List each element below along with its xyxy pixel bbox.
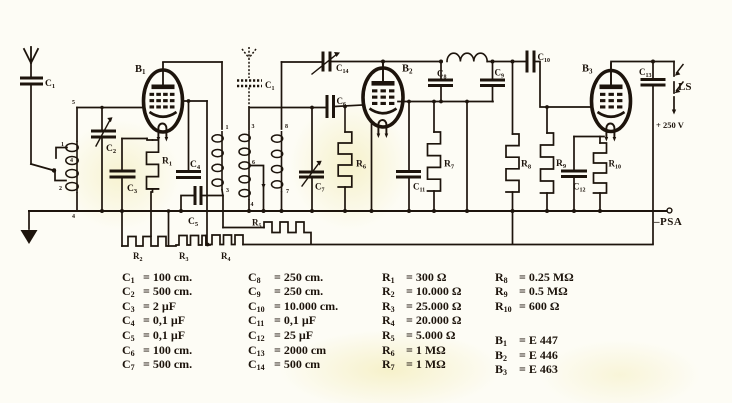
svg-text:3: 3 <box>252 124 255 130</box>
switch arm (wave range selector) <box>31 164 54 171</box>
wire grid line of B2: coil B top to C6 <box>249 108 326 131</box>
wire to C10 <box>487 61 526 63</box>
wire C14 left lead <box>282 61 322 63</box>
variable capacitor C2 (tuning) <box>91 131 116 137</box>
svg-text:R7: R7 <box>444 160 455 171</box>
svg-text:C2: C2 <box>106 144 116 155</box>
parts list: C6 value <box>122 343 192 358</box>
arrow of C7 <box>302 163 319 186</box>
wire band filter centre tap to rail <box>466 102 468 212</box>
wire coil B bottom to rail <box>248 200 250 211</box>
wire B2 output node (y101.5) <box>398 101 493 103</box>
dotted capacitor C1 (alt antenna) <box>237 81 262 87</box>
wire coil A bottom down to R5 <box>222 190 223 228</box>
parts list: C4 value <box>122 313 185 328</box>
bias chain R2 R3 R4 baseline <box>122 237 176 247</box>
resistor R5 <box>264 222 311 244</box>
svg-text:B3: B3 <box>582 64 593 76</box>
wire C12 to rail <box>573 178 575 211</box>
wire stem of C2 <box>101 108 103 130</box>
svg-text:R8: R8 <box>521 160 532 171</box>
resistor R1 <box>147 140 159 189</box>
resistor R4 <box>210 235 243 245</box>
capacitor C6 (grid coupling) <box>327 95 334 118</box>
svg-text:C7: C7 <box>315 182 325 194</box>
wire C14 to B2 anode junction and band filter <box>332 61 442 63</box>
parts list: R8 value <box>495 270 574 285</box>
svg-text:R10: R10 <box>609 159 622 171</box>
+250V supply terminal <box>673 97 675 110</box>
stem of C7 <box>311 108 313 171</box>
wire node down to R3/R4 junction <box>206 101 208 244</box>
ground symbol <box>28 211 30 229</box>
capacitor C1 (antenna coupling) <box>20 78 43 84</box>
wire R5 lead <box>223 227 264 229</box>
wire C5 left lead to rail <box>181 196 195 212</box>
svg-text:8: 8 <box>285 124 288 130</box>
-PSA terminal <box>667 208 672 213</box>
capacitor C3 <box>121 139 123 170</box>
wire C14 branch down to coil C <box>281 62 283 129</box>
tube B2 electrodes <box>372 81 395 86</box>
capacitor C10 <box>527 51 534 73</box>
svg-text:C3: C3 <box>127 184 138 195</box>
coupling coil A <box>221 131 223 190</box>
svg-text:C13: C13 <box>639 67 652 79</box>
parts list: R9 value <box>495 284 568 299</box>
wire node C3/R1 (y138) <box>122 138 147 140</box>
svg-text:7: 7 <box>286 189 289 195</box>
svg-text:2: 2 <box>59 186 62 192</box>
parts list: C2 value <box>122 284 192 299</box>
resistor R6 (grid leak) <box>344 107 346 133</box>
wire C1 down to wave-range switch arm <box>30 86 32 165</box>
svg-text:5: 5 <box>72 100 75 106</box>
capacitor C4 stem <box>188 101 190 170</box>
svg-text:4: 4 <box>251 202 254 208</box>
svg-text:R3: R3 <box>179 251 189 263</box>
wire C7 to rail <box>311 179 313 212</box>
wire C3 node down to R2 <box>121 211 123 246</box>
wire L1 bottom to chassis rail <box>76 193 78 211</box>
svg-text:C1: C1 <box>45 79 55 90</box>
svg-text:3: 3 <box>226 188 229 194</box>
oscillator coil B <box>248 131 250 200</box>
svg-text:C9: C9 <box>495 68 505 80</box>
svg-text:B1: B1 <box>135 64 146 76</box>
parts list: R3 value <box>382 299 461 314</box>
wire C2 bottom to rail <box>101 139 103 212</box>
switch contact lower (tap 2) <box>55 170 66 181</box>
wire B3 cathode node <box>574 136 604 138</box>
arrow of C14 <box>312 54 337 74</box>
wire C13 down to bias rail <box>652 87 654 244</box>
parts list: R5 value <box>382 328 455 343</box>
capacitor C8 <box>440 87 442 102</box>
antenna (aerial) symbol <box>24 47 38 63</box>
capacitor C13 <box>652 62 654 79</box>
tube B2 (E446) envelope <box>363 68 403 127</box>
capacitor C5 <box>195 186 201 205</box>
svg-text:C11: C11 <box>413 182 425 194</box>
wire B1 grid side node <box>182 100 207 102</box>
svg-text:1: 1 <box>226 125 229 131</box>
parts list: B3 value <box>495 362 558 377</box>
antenna coil L1 <box>76 141 78 193</box>
resistor R9 <box>546 107 548 133</box>
svg-text:C14: C14 <box>336 63 349 75</box>
svg-text:R4: R4 <box>221 251 231 263</box>
svg-text:B2: B2 <box>402 64 413 76</box>
parts list: R10 value <box>495 299 559 314</box>
wire antenna to C1 <box>30 63 32 76</box>
svg-text:R2: R2 <box>133 251 143 263</box>
resistor R3 <box>176 236 206 246</box>
wire C6 to B2 grid <box>335 105 363 107</box>
parts list: C9 value <box>248 284 323 299</box>
parts list: C11 value <box>248 313 316 328</box>
parts list: C14 value <box>248 357 320 372</box>
wire top rail down to coil A <box>221 62 223 129</box>
capacitor C9 <box>492 62 494 80</box>
resistor R8 <box>512 62 514 135</box>
wire B1 anode to top rail <box>163 61 222 63</box>
parts list: C10 value <box>248 299 338 314</box>
arrow of C2 <box>96 120 110 146</box>
svg-text:C4: C4 <box>190 160 201 171</box>
parts list: R2 value <box>382 284 461 299</box>
svg-text:R1: R1 <box>162 157 172 168</box>
capacitor C4 <box>176 172 201 178</box>
parts list: B2 value <box>495 348 558 363</box>
svg-text:R9: R9 <box>556 159 567 170</box>
tube B1 (E447) envelope <box>144 70 183 132</box>
capacitor C12 stem <box>573 137 575 170</box>
parts list: C12 value <box>248 328 313 343</box>
bias rail to C13 <box>243 244 653 246</box>
tube B1 electrodes <box>152 85 175 90</box>
parts list: R6 value <box>382 343 446 358</box>
parts list: C1 value <box>122 270 192 285</box>
chassis rail (earth) <box>29 210 667 212</box>
wire rail tap to R2/R3 junction <box>168 211 170 246</box>
resistor R10 <box>599 137 601 144</box>
wire B3 anode to output <box>611 62 674 85</box>
tube B3 electrodes <box>600 85 623 90</box>
parts list: C3 value <box>122 299 176 314</box>
parts list: C13 value <box>248 343 326 358</box>
svg-text:–PSA: –PSA <box>653 216 682 228</box>
parts list: C8 value <box>248 270 323 285</box>
svg-text:4: 4 <box>72 214 75 220</box>
parts list: B1 value <box>495 333 558 348</box>
dotted alternative antenna <box>242 47 256 78</box>
wire coil C bottom to rail <box>281 192 283 211</box>
capacitor C11 stem <box>408 102 410 171</box>
LS output terminal upper <box>673 62 675 77</box>
svg-text:4: 4 <box>70 158 73 164</box>
switch contact upper (tap 1) <box>56 148 67 159</box>
wire grid line from L1 to tube B1 <box>77 107 144 109</box>
parts list: R1 value <box>382 270 446 285</box>
svg-text:C12: C12 <box>573 182 586 194</box>
wire C10 to B3 grid <box>534 62 592 108</box>
band filter coil L2 <box>447 53 487 61</box>
reaction coil C <box>281 131 283 192</box>
capacitor C12 <box>561 171 587 177</box>
wire C5 right lead to coil A bottom <box>201 195 223 197</box>
svg-text:C5: C5 <box>188 217 199 228</box>
wire B2 cathode down to rail <box>371 122 373 211</box>
LS output terminal lower <box>673 82 675 93</box>
resistor R7 <box>433 102 435 133</box>
variable capacitor C7 (tuning) <box>299 172 324 177</box>
svg-text:LS: LS <box>678 81 691 93</box>
wire C11 to rail <box>408 179 410 212</box>
parts list: R4 value <box>382 313 461 328</box>
tube B3 (E463) envelope <box>592 71 631 132</box>
wire L1 top to grid line <box>76 108 78 142</box>
parts list: C5 value <box>122 328 185 343</box>
svg-text:C1: C1 <box>265 80 275 92</box>
wire B2 anode to top rail <box>382 62 384 84</box>
variable capacitor C14 <box>323 52 330 72</box>
svg-text:R6: R6 <box>356 160 367 171</box>
wire coil B tap to rail with switch arrow <box>251 166 264 212</box>
svg-text:1: 1 <box>61 142 64 148</box>
parts list: C7 value <box>122 357 192 372</box>
capacitor C11 <box>396 172 421 178</box>
svg-text:+ 250 V: + 250 V <box>656 120 685 130</box>
parts list: R7 value <box>382 357 446 372</box>
